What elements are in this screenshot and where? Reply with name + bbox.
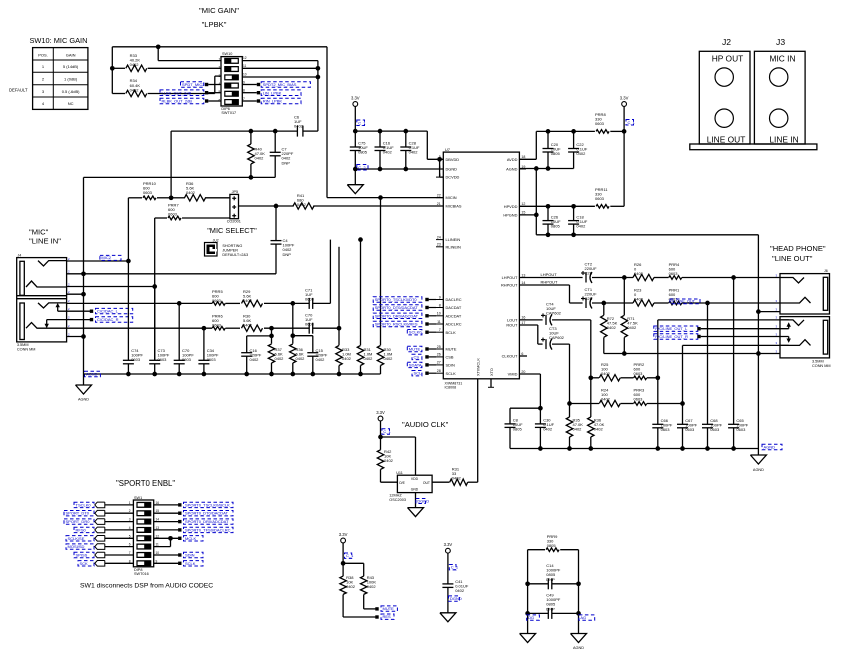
svg-text:"MIC GAIN": "MIC GAIN" xyxy=(199,6,239,15)
svg-text:MUTE: MUTE xyxy=(383,606,395,611)
capacitor C16 xyxy=(379,131,381,147)
net label xyxy=(78,561,94,566)
svg-text:0402: 0402 xyxy=(367,584,377,589)
svg-text:2: 2 xyxy=(129,509,131,513)
node xyxy=(353,129,358,134)
net label xyxy=(527,615,540,620)
svg-text:0603: 0603 xyxy=(736,427,746,432)
wire xyxy=(578,550,580,634)
svg-text:ADCLRC: ADCLRC xyxy=(446,322,462,327)
svg-text:SWT016: SWT016 xyxy=(134,572,149,576)
svg-text:C/C/DAC_L: C/C/DAC_L xyxy=(97,309,119,314)
svg-text:OSC2003: OSC2003 xyxy=(389,498,406,502)
svg-text:0402: 0402 xyxy=(601,371,611,376)
node xyxy=(622,129,627,134)
wire xyxy=(154,554,179,556)
node xyxy=(269,326,274,331)
svg-text:2: 2 xyxy=(219,66,221,70)
net label xyxy=(407,330,422,335)
input tag xyxy=(95,552,105,558)
svg-text:0603: 0603 xyxy=(669,271,679,276)
wire xyxy=(510,407,540,409)
svg-text:0402: 0402 xyxy=(342,356,352,361)
wire xyxy=(592,277,633,279)
svg-text:SPDT_MIC2: SPDT_MIC2 xyxy=(182,82,205,87)
svg-text:DNP: DNP xyxy=(546,606,555,611)
wire xyxy=(154,537,179,539)
net label xyxy=(670,299,700,304)
svg-text:C_1: C_1 xyxy=(628,120,636,125)
svg-text:SPORT0_DR0/ADCDAT: SPORT0_DR0/ADCDAT xyxy=(375,313,419,318)
svg-text:OUT: OUT xyxy=(423,481,430,485)
resistor R26 xyxy=(633,274,654,280)
svg-text:0603: 0603 xyxy=(595,196,605,201)
svg-text:0805: 0805 xyxy=(513,427,523,432)
svg-text:SPDT2_MIC_BIAS: SPDT2_MIC_BIAS xyxy=(263,82,297,87)
net label xyxy=(66,536,94,541)
svg-text:0402: 0402 xyxy=(296,356,306,361)
svg-text:MOSI/SD: MOSI/SD xyxy=(68,544,85,549)
wire xyxy=(205,83,208,86)
capacitor C68 xyxy=(702,423,713,425)
svg-text:28: 28 xyxy=(437,369,441,373)
capacitor CT4 xyxy=(545,315,547,325)
wire xyxy=(682,277,780,279)
resistor R43 xyxy=(361,576,367,594)
switch SW10 xyxy=(221,57,242,106)
ground xyxy=(520,634,536,643)
wire xyxy=(127,198,129,260)
wire xyxy=(105,562,134,564)
oscillator U11 xyxy=(397,475,432,492)
net label xyxy=(261,82,310,88)
svg-text:J6: J6 xyxy=(824,269,828,273)
capacitor C65 xyxy=(728,423,739,425)
wire xyxy=(535,215,537,235)
svg-text:R/C/LINE_OUT_R: R/C/LINE_OUT_R xyxy=(655,334,688,339)
net label xyxy=(64,519,94,524)
wire xyxy=(292,303,294,335)
wire xyxy=(67,293,84,295)
svg-text:SPORT0_TSCLK0/DT0: SPORT0_TSCLK0/DT0 xyxy=(375,297,418,302)
svg-text:"SPORT0 ENBL": "SPORT0 ENBL" xyxy=(116,479,175,488)
svg-text:3: 3 xyxy=(129,518,131,522)
wire xyxy=(58,310,92,312)
capacitor C20 xyxy=(547,131,549,148)
svg-text:3.3V: 3.3V xyxy=(351,96,360,101)
resistor R24 xyxy=(599,400,620,406)
capacitor C18 xyxy=(573,206,575,220)
net label xyxy=(626,120,634,126)
capacitor C8 xyxy=(505,423,516,425)
svg-text:0402: 0402 xyxy=(383,150,393,155)
net label xyxy=(100,255,121,260)
svg-text:"LPBK": "LPBK" xyxy=(202,20,227,29)
wire xyxy=(271,328,273,336)
svg-text:0402: 0402 xyxy=(607,325,617,330)
wire xyxy=(342,543,344,576)
svg-text:22: 22 xyxy=(437,193,441,197)
resistor R33b xyxy=(338,328,340,345)
node xyxy=(756,309,761,314)
net label xyxy=(184,527,234,532)
svg-text:0603: 0603 xyxy=(212,323,222,328)
svg-text:8: 8 xyxy=(129,559,131,563)
input tag xyxy=(95,502,105,508)
svg-text:3.3V: 3.3V xyxy=(444,542,453,547)
ground xyxy=(440,613,456,622)
svg-text:POS.: POS. xyxy=(38,53,48,58)
net label xyxy=(357,165,368,171)
net label xyxy=(373,297,422,302)
node xyxy=(538,406,543,411)
svg-text:0603: 0603 xyxy=(131,357,141,362)
capacitor C22 xyxy=(573,131,575,148)
svg-text:SDIN: SDIN xyxy=(185,553,195,558)
svg-text:8: 8 xyxy=(439,303,441,307)
node xyxy=(358,372,363,377)
capacitor C41 xyxy=(442,583,453,585)
wire xyxy=(154,529,179,531)
node xyxy=(576,581,581,586)
svg-text:0402: 0402 xyxy=(346,584,356,589)
node xyxy=(571,232,576,237)
wire xyxy=(535,169,537,215)
svg-text:14: 14 xyxy=(521,281,525,285)
svg-text:27: 27 xyxy=(437,361,441,365)
node xyxy=(576,611,581,616)
wire xyxy=(519,324,537,326)
svg-text:12: 12 xyxy=(243,56,247,60)
node xyxy=(269,372,274,377)
svg-text:DACDAT: DACDAT xyxy=(446,305,462,310)
node xyxy=(378,435,383,440)
svg-text:DEFAULT=2&3: DEFAULT=2&3 xyxy=(222,253,248,257)
wire xyxy=(242,76,318,78)
svg-text:ADCDAT: ADCDAT xyxy=(446,313,462,318)
svg-text:SCLK: SCLK xyxy=(185,561,196,566)
svg-text:J4: J4 xyxy=(18,254,22,258)
svg-text:JP5: JP5 xyxy=(232,190,239,194)
net label xyxy=(184,536,204,541)
svg-text:U7: U7 xyxy=(445,147,451,152)
svg-text:0402: 0402 xyxy=(573,427,583,432)
node xyxy=(655,446,660,451)
net label xyxy=(412,354,422,359)
net label xyxy=(184,502,234,507)
wire xyxy=(757,235,759,455)
wire xyxy=(105,546,134,548)
IC digital pin stubs xyxy=(429,299,436,301)
wire xyxy=(733,278,735,425)
svg-text:XTI/MCLK: XTI/MCLK xyxy=(476,358,481,376)
net label xyxy=(74,527,94,532)
svg-text:7: 7 xyxy=(439,328,441,332)
svg-text:CS: CS xyxy=(414,354,420,359)
net label xyxy=(381,606,397,611)
svg-text:SPISS: SPISS xyxy=(76,553,88,558)
svg-text:17: 17 xyxy=(521,321,525,325)
wire xyxy=(381,436,416,438)
svg-text:0603: 0603 xyxy=(305,297,315,302)
wire xyxy=(105,512,134,514)
node xyxy=(310,372,315,377)
svg-text:SCLK: SCLK xyxy=(446,371,457,376)
wire xyxy=(621,403,634,405)
wire xyxy=(154,562,179,564)
svg-text:AGND: AGND xyxy=(86,372,98,377)
node xyxy=(177,301,182,306)
wire xyxy=(105,554,134,556)
wire xyxy=(380,198,382,346)
svg-text:RLBK_OUT_2dB: RLBK_OUT_2dB xyxy=(162,99,193,104)
wire xyxy=(67,336,84,338)
net label xyxy=(416,499,426,504)
wire xyxy=(214,76,216,93)
net label xyxy=(407,346,422,351)
wire xyxy=(623,131,625,206)
svg-text:3.3V: 3.3V xyxy=(339,532,348,537)
svg-text:CAP602: CAP602 xyxy=(549,335,565,340)
wire xyxy=(707,303,709,424)
svg-text:DCVDD: DCVDD xyxy=(446,175,460,180)
connector J2 xyxy=(699,51,750,144)
svg-text:ROUT: ROUT xyxy=(506,323,518,328)
net label xyxy=(74,552,94,557)
header J5 xyxy=(230,194,239,218)
svg-text:21: 21 xyxy=(437,202,441,206)
svg-text:HP OUT: HP OUT xyxy=(712,54,744,64)
svg-text:11: 11 xyxy=(243,64,247,68)
node xyxy=(622,351,627,356)
wire xyxy=(354,106,356,131)
input tag xyxy=(95,544,105,550)
net label xyxy=(654,334,698,339)
wire xyxy=(343,562,364,564)
wire xyxy=(67,273,276,275)
node xyxy=(269,334,274,339)
wire xyxy=(157,47,159,61)
wire xyxy=(154,218,156,361)
svg-text:HPGND: HPGND xyxy=(503,213,517,218)
wire xyxy=(432,481,449,483)
node xyxy=(202,372,207,377)
svg-text:0603: 0603 xyxy=(634,371,644,376)
svg-text:MICBIAS: MICBIAS xyxy=(446,204,462,209)
svg-text:AGND: AGND xyxy=(764,445,776,450)
svg-text:JU2: JU2 xyxy=(213,239,219,243)
net label xyxy=(382,429,390,434)
svg-text:DEFAULT: DEFAULT xyxy=(9,88,28,93)
svg-text:SWT017: SWT017 xyxy=(221,111,236,115)
svg-text:MUTE: MUTE xyxy=(409,347,421,352)
node xyxy=(290,301,295,306)
wire xyxy=(592,302,633,304)
svg-text:6: 6 xyxy=(521,352,523,356)
wire xyxy=(381,481,398,483)
net label xyxy=(449,596,460,601)
wire xyxy=(343,616,375,618)
wire xyxy=(329,240,331,304)
node xyxy=(622,275,627,280)
capacitor CT1 xyxy=(585,298,587,308)
svg-text:0603: 0603 xyxy=(168,212,178,217)
contact arrow up xyxy=(57,306,59,312)
svg-text:SCK: SCK xyxy=(80,561,89,566)
svg-text:0603: 0603 xyxy=(305,322,315,327)
resistor R36b xyxy=(292,336,294,344)
resistor PRR7 xyxy=(155,217,167,219)
capacitor C70 xyxy=(308,323,310,334)
svg-text:AGND: AGND xyxy=(506,167,517,172)
svg-text:4: 4 xyxy=(129,526,131,530)
capacitor CT2 xyxy=(585,273,587,283)
op-amp U7 audio codec xyxy=(443,152,519,379)
net label xyxy=(160,98,204,104)
svg-text:SCLK/SE: SCLK/SE xyxy=(68,536,85,541)
svg-text:LIN_LPBK: LIN_LPBK xyxy=(263,90,282,95)
svg-text:0402: 0402 xyxy=(275,356,285,361)
svg-text:5: 5 xyxy=(129,534,131,538)
svg-text:0402: 0402 xyxy=(543,427,553,432)
svg-text:J3: J3 xyxy=(776,37,785,47)
net label xyxy=(96,308,133,313)
svg-text:0402: 0402 xyxy=(255,156,265,161)
power 3.3V xyxy=(378,416,383,421)
svg-text:VDD: VDD xyxy=(411,477,419,481)
resistor R25 xyxy=(599,375,620,381)
svg-text:C_1: C_1 xyxy=(451,565,459,570)
wire xyxy=(519,319,542,321)
wire xyxy=(426,131,428,159)
wire xyxy=(205,91,208,94)
svg-text:MICIN: MICIN xyxy=(446,195,457,200)
resistor R35 xyxy=(569,404,571,418)
svg-text:0402: 0402 xyxy=(601,397,611,402)
svg-text:16: 16 xyxy=(521,316,525,320)
ground AGND right xyxy=(750,455,766,464)
wire AGND rail xyxy=(84,373,381,375)
node xyxy=(274,204,279,209)
resistor R40 xyxy=(250,131,252,144)
svg-text:0402: 0402 xyxy=(576,151,586,156)
svg-text:AVDD: AVDD xyxy=(507,157,518,162)
ground AGND bottom xyxy=(571,634,587,643)
resistor R41 xyxy=(293,203,314,209)
wire xyxy=(242,92,256,94)
net label xyxy=(381,614,394,619)
svg-text:6: 6 xyxy=(129,543,131,547)
net label xyxy=(373,313,422,318)
capacitor C16b xyxy=(246,336,248,353)
resistor R71 xyxy=(623,278,625,316)
capacitor C30 xyxy=(539,408,541,424)
wire xyxy=(105,521,134,523)
resistor R42 xyxy=(377,450,383,470)
net label xyxy=(181,82,204,88)
capacitor C67 xyxy=(677,423,688,425)
wire xyxy=(560,549,578,551)
net label xyxy=(579,615,595,620)
svg-text:O/E: O/E xyxy=(399,481,406,485)
svg-text:0402: 0402 xyxy=(294,124,304,129)
node xyxy=(316,66,321,71)
svg-text:0402: 0402 xyxy=(243,298,253,303)
node xyxy=(378,129,383,134)
resistor PRR4 xyxy=(669,276,682,280)
svg-text:"LINE IN": "LINE IN" xyxy=(29,237,61,246)
connector base xyxy=(690,144,817,150)
capacitor C4 xyxy=(275,206,277,241)
node xyxy=(731,446,736,451)
wire xyxy=(570,403,600,405)
resistor PRR3 xyxy=(634,402,647,406)
wire xyxy=(519,277,582,279)
wire xyxy=(380,421,382,450)
svg-text:0402: 0402 xyxy=(186,190,196,195)
node xyxy=(546,232,551,237)
svg-text:0402: 0402 xyxy=(297,202,307,207)
wire xyxy=(682,404,684,425)
svg-text:0402: 0402 xyxy=(130,87,140,92)
contact arrow down right xyxy=(788,337,790,341)
wire xyxy=(242,60,318,62)
svg-text:0402: 0402 xyxy=(634,297,644,302)
wire xyxy=(105,529,134,531)
svg-text:GAIN: GAIN xyxy=(66,53,76,58)
svg-text:0603: 0603 xyxy=(710,427,720,432)
svg-text:0402: 0402 xyxy=(594,427,604,432)
node xyxy=(546,129,551,134)
node xyxy=(546,204,551,209)
wire xyxy=(112,46,327,48)
svg-text:12MHZ: 12MHZ xyxy=(389,494,402,498)
node xyxy=(588,446,593,451)
svg-text:0402: 0402 xyxy=(409,150,419,155)
svg-text:CO2001: CO2001 xyxy=(227,220,241,224)
node xyxy=(567,401,572,406)
svg-text:LLBK_OUT_2dB: LLBK_OUT_2dB xyxy=(162,90,192,95)
svg-text:RIN_LPBK: RIN_LPBK xyxy=(263,99,283,104)
svg-text:"AUDIO CLK": "AUDIO CLK" xyxy=(402,420,449,429)
svg-text:SCLK0: SCLK0 xyxy=(409,330,422,335)
resistor R38 xyxy=(340,576,346,594)
capacitor C34 xyxy=(203,328,205,360)
resistor R30 xyxy=(225,327,240,329)
svg-text:DNP: DNP xyxy=(283,252,292,257)
svg-text:RES: RES xyxy=(383,614,392,619)
svg-text:0805: 0805 xyxy=(358,150,368,155)
wire xyxy=(519,373,540,375)
wire xyxy=(621,377,634,379)
resistor R36c xyxy=(590,378,592,417)
node xyxy=(156,44,161,49)
wire xyxy=(682,302,780,304)
svg-text:R_LINE_OUT: R_LINE_OUT xyxy=(672,300,696,304)
node xyxy=(341,561,346,566)
svg-text:SW10: SW10 xyxy=(222,52,232,56)
connector J3 xyxy=(754,51,805,144)
svg-text:18: 18 xyxy=(521,155,525,159)
node xyxy=(571,204,576,209)
node xyxy=(705,301,710,306)
wire xyxy=(326,47,328,198)
svg-text:HPVDD: HPVDD xyxy=(504,204,518,209)
svg-text:26: 26 xyxy=(437,353,441,357)
node xyxy=(110,66,115,71)
svg-text:0603: 0603 xyxy=(182,357,192,362)
svg-text:SW1 disconnects DSP from AUDIO: SW1 disconnects DSP from AUDIO CODEC xyxy=(80,583,213,590)
